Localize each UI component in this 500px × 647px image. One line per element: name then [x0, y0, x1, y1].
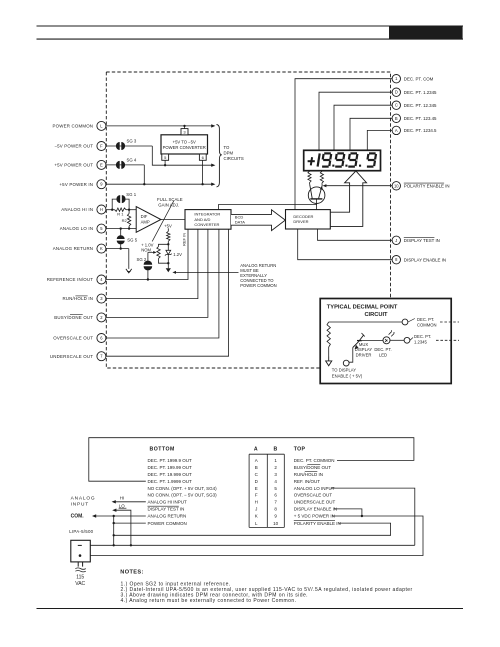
junction pin5/-5V rail [164, 164, 166, 166]
svg-text:DEC. PT. 123.45: DEC. PT. 123.45 [404, 116, 437, 121]
wire POWER COMMON to bus [114, 522, 146, 524]
svg-text:10: 10 [273, 521, 279, 526]
svg-text:ANALOG HI INPUT: ANALOG HI INPUT [148, 500, 188, 505]
terminal D DEC. PT. 1.2345 [392, 88, 400, 96]
solder gap SG1 bypass wire [112, 199, 116, 210]
svg-text:POWER COMMON: POWER COMMON [52, 124, 93, 129]
terminal E (+5V POWER OUT) [97, 160, 106, 169]
svg-text:DEC. PT. 1999.9 OUT: DEC. PT. 1999.9 OUT [148, 458, 193, 463]
header top rule [37, 25, 464, 27]
svg-text:HI: HI [120, 496, 124, 501]
svg-text:A: A [254, 447, 258, 453]
integrator and A/D converter box [185, 210, 231, 230]
svg-text:1: 1 [274, 458, 277, 463]
table column rules [249, 453, 284, 455]
BCD DATA block arrow [231, 210, 285, 231]
solder gap SG5 [117, 235, 125, 239]
resistor (dp pull) [327, 322, 330, 347]
display bezel [304, 150, 381, 170]
wire BUSY/DONE OUT [106, 229, 208, 317]
polarity display block arrow [331, 171, 367, 227]
wire F line down to converter pin 5 rail [152, 146, 213, 165]
resistor (polarity segment, right) [320, 171, 323, 183]
svg-text:B: B [255, 465, 258, 470]
svg-text:L: L [255, 521, 258, 526]
ground (reference) [166, 268, 171, 272]
svg-text:TOP: TOP [294, 447, 306, 453]
svg-text:REFERENCE IN/OUT: REFERENCE IN/OUT [47, 277, 93, 282]
svg-text:NOM.: NOM. [141, 248, 152, 253]
svg-text:DISPLAY TEST IN: DISPLAY TEST IN [148, 507, 185, 512]
svg-text:DISPLAY ENABLE IN: DISPLAY ENABLE IN [404, 257, 446, 262]
svg-text:D: D [255, 479, 259, 484]
svg-text:1.2V: 1.2V [173, 252, 182, 257]
terminal K (ANALOG RETURN) [97, 244, 106, 253]
svg-text:LED: LED [379, 352, 387, 357]
svg-text:ANALOG LO IN: ANALOG LO IN [60, 226, 93, 231]
svg-text:DRIVER: DRIVER [356, 352, 372, 357]
svg-text:ANALOG RETURN: ANALOG RETURN [148, 514, 187, 519]
note leader arrow to ground [175, 271, 238, 273]
svg-text:+5V POWER IN: +5V POWER IN [59, 182, 93, 187]
junction E/9 rail [143, 183, 145, 185]
junction pin6/+5V rail [201, 183, 203, 185]
wire ANALOG RETURN to ground [106, 248, 129, 250]
svg-text:−5V POWER OUT: −5V POWER OUT [54, 144, 93, 149]
solder gap SG2 branch [147, 252, 149, 261]
svg-text:+5V: +5V [164, 223, 172, 228]
resistor (+5V to ref) [167, 228, 169, 231]
svg-text:OVERSCALE OUT: OVERSCALE OUT [53, 336, 93, 341]
wire driver to LED [362, 340, 383, 342]
wire REFERENCE IN/OUT [106, 229, 188, 279]
svg-text:INTEGRATOR: INTEGRATOR [194, 212, 220, 217]
terminal 8 DISPLAY ENABLE IN [392, 256, 400, 264]
converter pin 3 [181, 129, 188, 135]
svg-text:DECODER: DECODER [293, 214, 313, 219]
potentiometer R2 [128, 210, 130, 214]
svg-text:BUSY/DONE OUT: BUSY/DONE OUT [54, 315, 93, 320]
svg-text:OVERSCALE OUT: OVERSCALE OUT [294, 493, 333, 498]
svg-text:POLARITY ENABLE IN: POLARITY ENABLE IN [294, 521, 341, 526]
wire POLARITY ENABLE IN (10) [325, 185, 392, 187]
converter pin 5 [162, 154, 169, 160]
ground (analog return) [126, 269, 132, 273]
svg-text:SG 2: SG 2 [137, 257, 147, 262]
svg-text:D: D [395, 90, 398, 95]
op-amp DIF AMP [136, 207, 161, 233]
wire POWER COMMON rail (L to DPM circuits arrow) [106, 125, 214, 127]
svg-text:4.) Analog return must be ext: 4.) Analog return must be externally con… [121, 598, 297, 604]
svg-text:NO CONN. (OPT. − 5V OUT, SG3): NO CONN. (OPT. − 5V OUT, SG3) [148, 493, 218, 498]
converter pin 3 stub [184, 126, 186, 129]
wiper arrow into reference pot [148, 251, 155, 253]
svg-text:115: 115 [76, 575, 84, 581]
svg-text:3: 3 [274, 472, 277, 477]
svg-text:GAIN ADJ.: GAIN ADJ. [158, 202, 179, 207]
wire RUN/HOLD IN [106, 229, 198, 298]
svg-text:+5V POWER OUT: +5V POWER OUT [54, 163, 93, 168]
svg-text:8: 8 [274, 507, 277, 512]
wire amp output to integrator [161, 219, 185, 221]
svg-text:BOTTOM: BOTTOM [150, 447, 175, 453]
svg-text:LO: LO [119, 503, 125, 508]
svg-text:ANALOG LO INPUT: ANALOG LO INPUT [294, 486, 335, 491]
header bottom rule [37, 38, 464, 40]
resistor (polarity segment, left) [308, 171, 311, 182]
wire dp common [329, 321, 402, 323]
svg-text:ANALOG RETURN: ANALOG RETURN [53, 246, 93, 251]
svg-text:RUN/HOLD IN: RUN/HOLD IN [294, 472, 323, 477]
svg-text:DEC. PT. COM: DEC. PT. COM [404, 76, 434, 81]
svg-text:SG 4: SG 4 [127, 158, 137, 163]
svg-text:ANALOG HI IN: ANALOG HI IN [61, 207, 93, 212]
svg-text:DRIVER: DRIVER [293, 219, 308, 224]
wire ANALOG LO wrap to common [331, 488, 415, 545]
typical decimal point circuit box [320, 299, 451, 384]
svg-text:CIRCUIT: CIRCUIT [364, 312, 388, 318]
svg-text:UNDERSCALE OUT: UNDERSCALE OUT [50, 354, 93, 359]
svg-text:R 1: R 1 [117, 212, 124, 217]
brace to DPM circuits [217, 125, 222, 187]
svg-text:7: 7 [274, 500, 277, 505]
svg-text:NO CONN. (OPT. + 5V OUT, SG4): NO CONN. (OPT. + 5V OUT, SG4) [148, 486, 218, 491]
svg-text:DEC. PT. 199.99 OUT: DEC. PT. 199.99 OUT [148, 465, 193, 470]
svg-text:C: C [255, 472, 259, 477]
svg-text:ENABLE ( + 5V): ENABLE ( + 5V) [332, 373, 363, 378]
terminal 1 DEC. PT. COM [392, 75, 400, 83]
svg-text:REF. IN/OUT: REF. IN/OUT [294, 479, 321, 484]
LED DEC PT [383, 337, 390, 344]
terminal 6 (OVERSCALE OUT) [97, 334, 106, 343]
svg-text:ANALOG: ANALOG [71, 495, 96, 501]
svg-text:POWER COMMON: POWER COMMON [240, 283, 277, 288]
potentiometer (ref adjust) [159, 244, 169, 246]
solder gap SG4 [116, 161, 120, 169]
terminal F (&#8722;5V POWER OUT) [97, 142, 106, 151]
wire dec pt select bracket (row D around top to DEC PT COMMON) [89, 438, 414, 482]
svg-text:AND A/D: AND A/D [194, 217, 210, 222]
svg-text:INPUT: INPUT [71, 502, 89, 508]
resistor R1 [115, 208, 126, 211]
svg-text:BUSY/DONE OUT: BUSY/DONE OUT [294, 465, 332, 470]
svg-text:A: A [395, 128, 398, 133]
svg-text:K: K [255, 514, 258, 519]
terminal C DEC. PT. 12.345 [392, 101, 400, 109]
svg-text:LIPA-5/500: LIPA-5/500 [69, 529, 93, 534]
wire POLARITY ENABLE wrap to common [114, 523, 391, 535]
wire DISPLAY ENABLE tie to +5 [334, 509, 362, 516]
svg-text:DEC. PT. 19.999 OUT: DEC. PT. 19.999 OUT [148, 472, 193, 477]
solder gap SG5 branch [120, 229, 122, 236]
converter pin 6 [199, 154, 206, 160]
wire DEC PT COM (1) to decoder [295, 79, 392, 210]
wire transistor emitter to integrator top [218, 199, 316, 210]
svg-text:9: 9 [274, 514, 277, 519]
terminal 9 (+5V POWER IN) [97, 180, 106, 189]
wire OVERSCALE OUT [106, 229, 219, 338]
wire DEC PT 1.2345 (D) to display [319, 92, 392, 150]
wire adapter return rail [90, 544, 415, 546]
header black bar [389, 26, 463, 39]
wire ANALOG HI IN [106, 209, 115, 211]
arrow to display enable [326, 361, 332, 366]
svg-text:F: F [255, 493, 258, 498]
svg-text:COMMON: COMMON [417, 322, 437, 327]
wire +5V out (E through SG4) [106, 164, 145, 166]
terminal 5 (ANALOG LO IN) [97, 224, 106, 233]
svg-text:TYPICAL DECIMAL POINT: TYPICAL DECIMAL POINT [327, 305, 398, 311]
svg-text:4: 4 [274, 479, 277, 484]
svg-text:DPM: DPM [224, 151, 234, 156]
common bus vertical [113, 516, 115, 545]
terminal L (POWER COMMON) [97, 121, 106, 130]
display digits +19999 [308, 153, 376, 166]
svg-text:AMP: AMP [141, 220, 150, 225]
wire DEC PT 1234.5 (A) to display [367, 130, 392, 150]
svg-text:UNDERSCALE OUT: UNDERSCALE OUT [294, 500, 336, 505]
svg-text:NOTES:: NOTES: [120, 569, 144, 575]
svg-text:DISPLAY ENABLE IN: DISPLAY ENABLE IN [294, 507, 337, 512]
svg-text:J: J [395, 238, 397, 243]
svg-text:CIRCUITS: CIRCUITS [224, 156, 244, 161]
decoder driver box [286, 210, 331, 229]
transistor Q1 polarity driver [308, 187, 325, 204]
svg-text:B: B [274, 447, 278, 453]
svg-text:R2: R2 [122, 218, 128, 223]
svg-text:DIF: DIF [141, 214, 148, 219]
svg-text:DEC. PT. 1.2345: DEC. PT. 1.2345 [404, 90, 437, 95]
svg-text:A: A [255, 458, 258, 463]
svg-text:TO DISPLAY: TO DISPLAY [332, 368, 356, 373]
svg-text:DEC. PT. 1.9999 OUT: DEC. PT. 1.9999 OUT [148, 479, 193, 484]
wire DISPLAY TEST IN (J) to decoder [318, 229, 393, 240]
svg-text:VAC: VAC [75, 581, 85, 587]
svg-text:BCD: BCD [235, 214, 244, 219]
footer rule [37, 608, 464, 610]
zener 1.2V [167, 244, 169, 250]
svg-text:5: 5 [274, 486, 277, 491]
svg-text:E: E [100, 162, 103, 167]
svg-text:J: J [255, 507, 257, 512]
svg-text:DEC. PT. 1234.5: DEC. PT. 1234.5 [404, 128, 437, 133]
terminal J DISPLAY TEST IN [392, 236, 400, 244]
solder gap SG3 [116, 142, 120, 150]
svg-text:POWER COMMON: POWER COMMON [148, 521, 187, 526]
svg-text:DISPLAY TEST IN: DISPLAY TEST IN [404, 238, 440, 243]
terminal 10 POLARITY ENABLE IN [392, 182, 400, 190]
wire -5V out (F through SG3) [106, 145, 153, 147]
svg-text:DEC. PT. 12.345: DEC. PT. 12.345 [404, 103, 437, 108]
wire DISPLAY ENABLE IN (8) to decoder [298, 229, 392, 260]
svg-text:6: 6 [274, 493, 277, 498]
svg-text:2: 2 [274, 465, 277, 470]
wire ANALOG LO IN [106, 228, 137, 230]
power converter U1 box [161, 135, 208, 154]
svg-text:C: C [395, 103, 398, 108]
terminal B DEC. PT. 123.45 [392, 114, 400, 122]
svg-text:COM.: COM. [71, 514, 85, 520]
terminal A DEC. PT. 1234.5 [392, 126, 400, 134]
wire DEC PT 12.345 (C) to display [334, 105, 392, 150]
svg-text:TO: TO [224, 145, 231, 150]
wire DEC PT 123.45 (B) to display [350, 118, 392, 150]
svg-text:B: B [395, 116, 398, 121]
wire E line down to +5V rail [143, 165, 145, 184]
svg-text:E: E [255, 486, 258, 491]
wire +5 VDC POWER IN wrap to adapter [90, 516, 423, 556]
svg-text:SG 1: SG 1 [126, 192, 136, 197]
junction pin3/power common rail [183, 125, 185, 127]
node TO DISPLAY ENABLE [343, 360, 349, 366]
wire +5V POWER IN rail (9 to DPM circuits arrow) [106, 183, 214, 185]
solder gap SG2 [144, 261, 153, 265]
svg-text:RUN/HOLD IN: RUN/HOLD IN [62, 296, 93, 301]
svg-text:DEC. PT. COMMON: DEC. PT. COMMON [294, 458, 335, 463]
svg-text:1.2345: 1.2345 [414, 339, 427, 344]
svg-text:CONVERTER: CONVERTER [194, 222, 219, 227]
gain adjust wiper line [152, 201, 174, 242]
node DEC PT COMMON [402, 319, 408, 325]
solder gap SG1 [116, 195, 120, 203]
svg-text:POLARITY ENABLE IN: POLARITY ENABLE IN [404, 183, 450, 188]
DPM dashed boundary [106, 72, 390, 368]
svg-text:K: K [100, 246, 103, 251]
svg-text:DATA: DATA [235, 220, 245, 225]
svg-text:10: 10 [394, 183, 399, 188]
svg-text:+ 5 VDC POWER IN: + 5 VDC POWER IN [294, 514, 335, 519]
svg-text:SG 5: SG 5 [127, 238, 137, 243]
svg-text:SG 3: SG 3 [127, 139, 137, 144]
terminal H (ANALOG HI IN) [97, 205, 106, 214]
terminal 4 (REFERENCE IN/OUT) [97, 275, 106, 284]
adapter prongs [77, 562, 79, 567]
svg-text:H: H [255, 500, 258, 505]
terminal 7 (UNDERSCALE OUT) [97, 352, 106, 361]
transistor Q2 mux display driver [349, 348, 353, 363]
terminal 3 (see below) [97, 294, 106, 303]
wire UNDERSCALE OUT [106, 229, 229, 356]
wire LED to dp select [390, 339, 404, 341]
svg-text:H: H [100, 207, 103, 212]
node DEC PT 1.2345 [404, 337, 410, 343]
svg-text:REF IN: REF IN [181, 233, 186, 246]
svg-text:POWER CONVERTER: POWER CONVERTER [163, 145, 206, 150]
terminal 2 (see below) [97, 313, 106, 322]
